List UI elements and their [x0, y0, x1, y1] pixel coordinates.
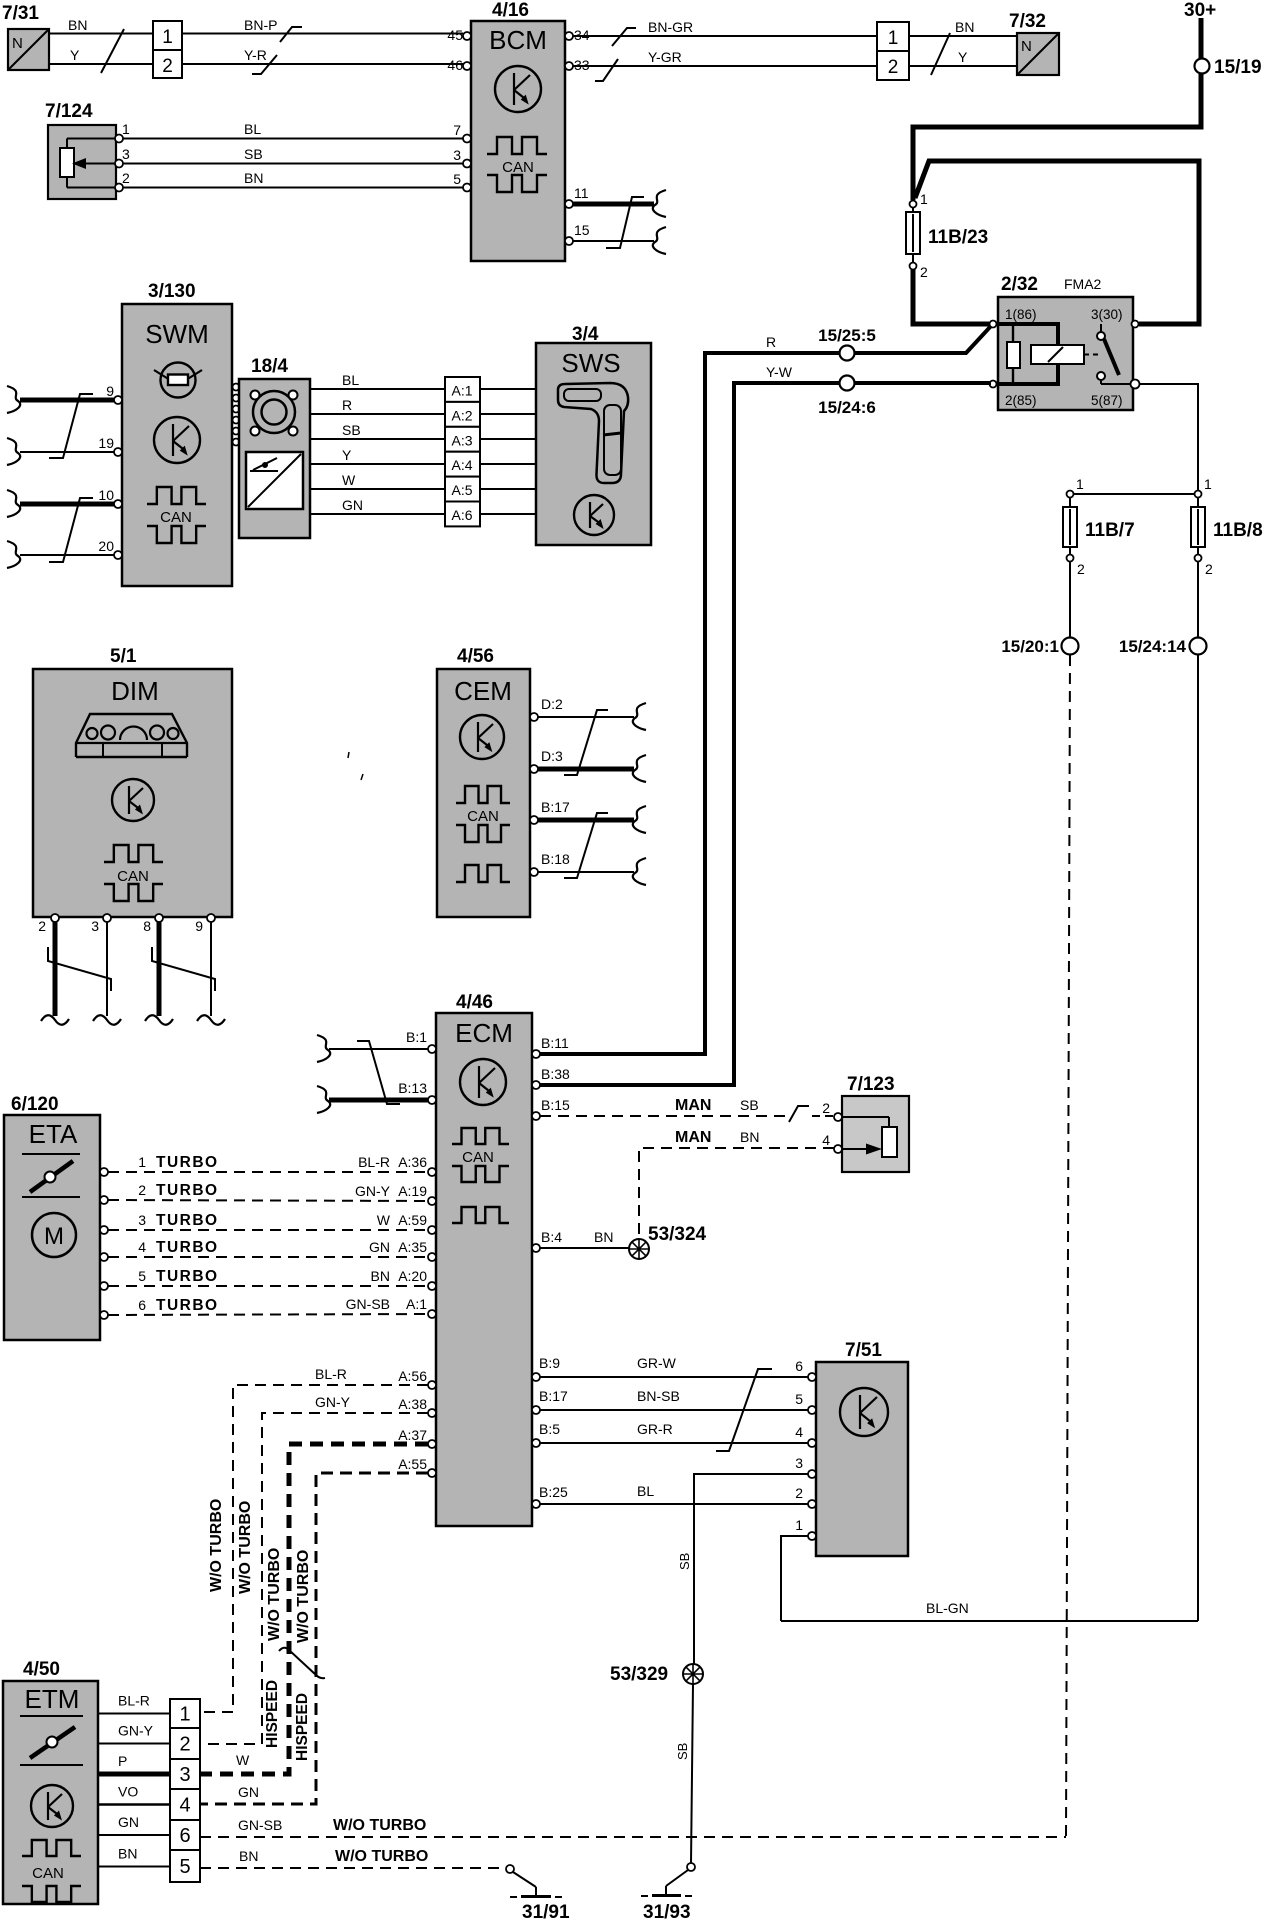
- svg-text:SB: SB: [677, 1553, 692, 1570]
- connector 15/24:6: [840, 376, 855, 391]
- svg-text:N: N: [12, 35, 23, 52]
- SWM pin 20: [114, 551, 122, 559]
- module SWM 3/130: [122, 304, 232, 586]
- 7/123 pin 2: [834, 1113, 842, 1121]
- svg-text:5/1: 5/1: [110, 646, 137, 667]
- squiggle end SWM:9: [7, 386, 20, 413]
- wire W 18/4 to A:5: [310, 488, 445, 490]
- BCM pin 11: [565, 200, 573, 208]
- connector pin 2 (top right): [877, 51, 909, 80]
- wire GR-W ECM B:9 to 7/51:6: [532, 1373, 540, 1381]
- 18/4 sensor icon: [246, 452, 303, 509]
- relay coil resistor: [1012, 324, 1014, 342]
- svg-text:46: 46: [447, 57, 463, 73]
- SWM CAN symbol: [147, 487, 206, 504]
- svg-text:7: 7: [453, 122, 461, 138]
- module 7/51: [816, 1362, 908, 1556]
- CEM pin D:2: [530, 713, 538, 721]
- 7/51 pin 4: [808, 1439, 816, 1447]
- svg-text:GN: GN: [342, 497, 363, 513]
- wire MAN SB ECM B:15 to 7/123:2 (dashed): [540, 1115, 788, 1117]
- fuse 11B/8 pin 1: [1195, 491, 1202, 498]
- svg-text:B:5: B:5: [539, 1421, 560, 1437]
- svg-text:2: 2: [1205, 561, 1213, 577]
- connector pin 2 (top left): [153, 50, 182, 78]
- wire fuse 11B/23 to relay 1(86): [913, 269, 989, 324]
- wire TURBO GN-SB ETA:6 to ECM A:1 (dashed): [108, 1314, 428, 1315]
- ECM pin B:38: [532, 1081, 540, 1089]
- wire BN-SB ECM B:17 to 7/51:5: [532, 1406, 540, 1414]
- svg-text:TURBO: TURBO: [156, 1182, 219, 1199]
- svg-text:45: 45: [447, 27, 463, 43]
- wire TURBO W ETA:3 to ECM A:59 (dashed): [108, 1229, 428, 1231]
- wire CEM D:3 (thick) to harness: [538, 767, 634, 772]
- svg-text:CAN: CAN: [502, 159, 534, 176]
- wire A:6 to SWS: [480, 513, 536, 515]
- cable marker CEM B:17/B:18: [564, 813, 608, 878]
- svg-text:2: 2: [162, 56, 173, 77]
- svg-text:TURBO: TURBO: [156, 1297, 219, 1314]
- svg-text:A:4: A:4: [451, 457, 472, 473]
- svg-text:Y: Y: [342, 447, 352, 463]
- svg-text:W/O TURBO: W/O TURBO: [335, 1848, 428, 1865]
- wire DIM:8 (thick) down: [157, 922, 162, 1016]
- 18/4 ring icon: [253, 391, 295, 433]
- svg-text:B:1: B:1: [406, 1029, 427, 1045]
- fuse 11B/7: [1069, 497, 1071, 556]
- svg-text:1: 1: [795, 1517, 803, 1533]
- cable marker SWM 10/20: [49, 498, 93, 562]
- SWS stalk icon: [558, 383, 628, 483]
- ETM CAN symbol: [22, 1840, 81, 1856]
- wire SB 7/124:3 to BCM:3: [123, 163, 463, 165]
- svg-text:A:56: A:56: [398, 1368, 427, 1384]
- svg-text:SB: SB: [675, 1743, 690, 1760]
- fuse 11B/8: [1197, 497, 1199, 556]
- CEM extra wave symbol: [456, 865, 510, 882]
- svg-text:R: R: [342, 397, 352, 413]
- svg-text:2(85): 2(85): [1005, 393, 1037, 408]
- ETA pin 6: [100, 1311, 108, 1319]
- squiggle end SWM:10: [7, 490, 20, 517]
- wire 30+ down to 15/19: [1199, 18, 1204, 127]
- svg-text:7/51: 7/51: [845, 1340, 882, 1361]
- svg-text:W/O TURBO: W/O TURBO: [295, 1550, 312, 1643]
- wire A:5 to SWS: [480, 488, 536, 490]
- DIM CAN symbol: [104, 845, 163, 862]
- relay coil-switch link (dashed): [1084, 354, 1102, 356]
- DIM pin 3: [103, 914, 111, 922]
- ETA pin 4: [100, 1253, 108, 1261]
- wire 15/20:1 down (dashed, W/O TURBO feed): [1066, 655, 1070, 1837]
- module ECM 4/46: [436, 1013, 532, 1526]
- squiggle end SWM:19: [7, 438, 20, 465]
- ETA pin 2: [100, 1196, 108, 1204]
- wire TURBO GN ETA:4 to ECM A:35 (dashed): [108, 1256, 428, 1258]
- squiggle end DIM:8: [145, 1015, 173, 1025]
- wire Y-R connector to BCM pin 46: [182, 63, 463, 65]
- svg-text:3: 3: [795, 1455, 803, 1471]
- connector A:2: [445, 402, 480, 427]
- svg-text:CAN: CAN: [462, 1149, 494, 1166]
- wire Y-W ECM B:38 to relay 2(85): [540, 383, 991, 1085]
- squiggle end BCM:11: [653, 190, 666, 217]
- svg-text:BN: BN: [955, 19, 974, 35]
- wire R 18/4 to A:2: [310, 413, 445, 415]
- module SWS 3/4: [536, 343, 651, 545]
- ETA motor symbol: [32, 1213, 76, 1257]
- wire BCM:15 to harness: [573, 240, 654, 242]
- 7/51 pin 2: [808, 1500, 816, 1508]
- svg-text:19: 19: [98, 435, 114, 451]
- svg-text:M: M: [44, 1223, 64, 1250]
- 7/124 wiper arrow pin 3: [86, 163, 119, 165]
- BCM pin 15: [565, 237, 573, 245]
- svg-text:D:2: D:2: [541, 696, 563, 712]
- wire ECM B:1 to harness: [329, 1048, 428, 1050]
- ECM pin B:4: [532, 1244, 540, 1252]
- 7/51 pin 1: [808, 1532, 816, 1540]
- wire Y connector to 7/32: [909, 65, 1017, 67]
- relay pin 3(30): [1132, 321, 1139, 328]
- svg-text:MAN: MAN: [675, 1097, 711, 1114]
- 7/123 pin 4: [834, 1145, 842, 1153]
- svg-text:BN-GR: BN-GR: [648, 19, 693, 35]
- svg-text:ETM: ETM: [25, 1684, 80, 1714]
- wire relay 5(87) to fuses 11B/7 11B/8: [1139, 384, 1198, 490]
- svg-text:30+: 30+: [1184, 0, 1216, 21]
- wire R ECM B:11 to relay 1(86): [540, 326, 991, 1054]
- BCM pin 3: [463, 160, 471, 168]
- svg-text:2: 2: [138, 1182, 146, 1198]
- svg-text:TURBO: TURBO: [156, 1154, 219, 1171]
- svg-text:GN: GN: [369, 1239, 390, 1255]
- wire SWM:20 to harness: [20, 554, 114, 556]
- wire SWM:10 (thick) to harness: [20, 502, 114, 507]
- svg-text:A:35: A:35: [398, 1239, 427, 1255]
- svg-text:TURBO: TURBO: [156, 1268, 219, 1285]
- BCM pin 46: [463, 62, 471, 70]
- component 7/124 (sensor with resistor): [48, 125, 116, 199]
- svg-text:15/24:6: 15/24:6: [818, 398, 876, 417]
- ETM connector pin 3: [170, 1759, 200, 1789]
- svg-text:20: 20: [98, 538, 114, 554]
- svg-text:A:37: A:37: [398, 1427, 427, 1443]
- svg-text:11: 11: [574, 185, 589, 201]
- DIM instrument cluster icon: [76, 714, 187, 757]
- connector A:1: [445, 377, 480, 402]
- svg-text:SB: SB: [244, 146, 263, 162]
- wire GN 18/4 to A:6: [310, 513, 445, 515]
- SWM pin 19: [114, 448, 122, 456]
- cable marker MAN SB: [789, 1106, 809, 1122]
- wire GN ETM to connector 6: [98, 1834, 170, 1836]
- svg-text:A:38: A:38: [398, 1396, 427, 1412]
- svg-text:GN: GN: [118, 1814, 139, 1830]
- component 18/4 (clock spring): [239, 379, 310, 538]
- svg-text:11B/23: 11B/23: [928, 227, 988, 248]
- ECM pin A:56: [428, 1381, 436, 1389]
- 7/124 pin 1: [115, 135, 123, 143]
- module ETM 4/50: [3, 1681, 98, 1904]
- svg-text:BL-R: BL-R: [315, 1366, 347, 1382]
- squiggle end B:13: [317, 1086, 330, 1113]
- module DIM 5/1: [33, 669, 232, 917]
- wire BL 18/4 to A:1: [310, 388, 445, 390]
- ETA pin 1: [100, 1168, 108, 1176]
- DIM pin 9: [207, 914, 215, 922]
- svg-text:1: 1: [162, 27, 173, 48]
- wire SB 18/4 to A:3: [310, 438, 445, 440]
- module CEM 4/56: [437, 669, 530, 917]
- ECM pin B:13: [428, 1096, 436, 1104]
- svg-text:15: 15: [574, 222, 590, 238]
- wire BCM:11 (thick) to harness: [573, 202, 654, 207]
- svg-text:W: W: [377, 1212, 391, 1228]
- svg-text:SWM: SWM: [145, 319, 209, 349]
- svg-text:3: 3: [138, 1212, 146, 1228]
- ECM circle-K symbol: [460, 1059, 506, 1105]
- svg-text:VO: VO: [118, 1784, 138, 1800]
- svg-text:11B/8: 11B/8: [1213, 520, 1263, 541]
- relay switch contact upper: [1100, 324, 1102, 332]
- svg-text:CAN: CAN: [467, 808, 499, 825]
- svg-text:A:2: A:2: [451, 407, 472, 423]
- wire DIM:2 (thick) down: [53, 922, 58, 1016]
- wire Y 7/31 to connector pin 2: [49, 63, 153, 65]
- cable marker BN-P: [280, 27, 302, 42]
- wire Y-GR BCM:33 to connector: [573, 65, 877, 67]
- svg-text:4/16: 4/16: [492, 0, 529, 21]
- svg-text:7/123: 7/123: [847, 1074, 895, 1095]
- svg-text:5: 5: [179, 1856, 190, 1878]
- ECM CAN symbol: [452, 1128, 509, 1144]
- cable marker CEM D:2/D:3: [564, 710, 608, 775]
- svg-text:A:55: A:55: [398, 1456, 427, 1472]
- ECM pin A:35: [428, 1253, 436, 1261]
- wire 30+ from 15/19 to fuse 11B/23: [913, 66, 1201, 200]
- svg-text:A:20: A:20: [398, 1268, 427, 1284]
- ECM pin A:37: [428, 1440, 436, 1448]
- svg-text:4: 4: [179, 1795, 190, 1817]
- svg-text:Y: Y: [70, 47, 80, 63]
- cable marker Y-GR: [595, 59, 618, 81]
- cable marker SWM 9/19: [49, 394, 93, 458]
- relay switch contact lower: [1097, 372, 1105, 380]
- 7/124 pin 3: [115, 160, 123, 168]
- wire GN-Y ETM to connector 2: [98, 1743, 170, 1745]
- DIM circle-K symbol: [112, 779, 154, 821]
- squiggle end BCM:15: [653, 227, 666, 254]
- ECM pin A:1: [428, 1310, 436, 1318]
- svg-text:5: 5: [453, 171, 461, 187]
- wire TURBO BN ETA:5 to ECM A:20 (dashed): [108, 1285, 428, 1287]
- svg-text:A:6: A:6: [451, 507, 472, 523]
- ECM pin A:19: [428, 1197, 436, 1205]
- BCM pin 34: [565, 32, 573, 40]
- splice 53/324: [629, 1239, 649, 1259]
- svg-text:GR-R: GR-R: [637, 1421, 673, 1437]
- ETM connector pin 1: [170, 1699, 200, 1728]
- relay pin 2(85): [990, 381, 997, 388]
- wire A:3 to SWS: [480, 438, 536, 440]
- wire CEM B:17 (thick) to harness: [538, 818, 634, 823]
- 7/51 circle-K symbol: [840, 1388, 888, 1436]
- svg-text:1: 1: [122, 121, 130, 137]
- squiggle end B:18: [633, 858, 646, 885]
- svg-text:CAN: CAN: [117, 868, 149, 885]
- svg-text:DIM: DIM: [111, 676, 159, 706]
- cable marker ECM B:1/B:13: [357, 1041, 400, 1104]
- svg-text:ECM: ECM: [455, 1018, 513, 1048]
- svg-text:B:9: B:9: [539, 1355, 560, 1371]
- connector A:4: [445, 452, 480, 477]
- svg-text:BL: BL: [244, 121, 261, 137]
- ECM pin A:55: [428, 1469, 436, 1477]
- ground 31/91: [506, 1865, 514, 1873]
- svg-text:GN-SB: GN-SB: [346, 1296, 390, 1312]
- wire TURBO BL-R ETA:1 to ECM A:36 (dashed): [108, 1171, 428, 1173]
- squiggle end D:2: [633, 703, 646, 730]
- svg-text:18/4: 18/4: [251, 356, 288, 377]
- svg-text:Y-W: Y-W: [766, 364, 793, 380]
- wire DIM:9 down: [210, 922, 212, 1016]
- wire BL-R ETM to connector 1: [98, 1713, 170, 1715]
- 7/51 pin 3: [808, 1470, 816, 1478]
- svg-text:5: 5: [138, 1268, 146, 1284]
- ECM pin A:59: [428, 1226, 436, 1234]
- svg-text:1(86): 1(86): [1005, 307, 1037, 322]
- svg-text:FMA2: FMA2: [1064, 276, 1102, 292]
- BCM circle-K symbol: [495, 66, 541, 112]
- svg-text:B:15: B:15: [541, 1097, 570, 1113]
- cable marker slash BN/Y right: [931, 33, 950, 75]
- wire TURBO GN-Y ETA:2 to ECM A:19 (dashed): [108, 1200, 428, 1201]
- wire ECM B:13 (thick) to harness: [329, 1098, 428, 1103]
- wire link fuse tops: [1070, 493, 1198, 495]
- component 7/32 (N box): [1017, 33, 1059, 75]
- wire MAN BN 7/123:4 to splice 53/324 (dashed): [639, 1148, 834, 1240]
- svg-text:53/324: 53/324: [648, 1224, 707, 1245]
- CEM pin B:18: [530, 868, 538, 876]
- svg-text:9: 9: [195, 918, 203, 934]
- svg-text:1: 1: [1204, 476, 1212, 492]
- svg-text:Y-R: Y-R: [244, 47, 267, 63]
- connector 15/25:5: [840, 346, 855, 361]
- ECM pin B:15: [532, 1112, 540, 1120]
- fuse 11B/7 pin 1: [1067, 491, 1074, 498]
- svg-text:A:19: A:19: [398, 1183, 427, 1199]
- 7/51 pin 6: [808, 1373, 816, 1381]
- connector 15/20:1: [1062, 638, 1079, 655]
- svg-text:1: 1: [920, 191, 928, 207]
- ETA pin 5: [100, 1282, 108, 1290]
- connector 15/24:14: [1190, 638, 1207, 655]
- wire BN ETM to connector 5: [98, 1866, 170, 1868]
- wire 15/24:14 down to BL-GN: [1197, 655, 1199, 1621]
- svg-text:2: 2: [122, 170, 130, 186]
- svg-text:A:3: A:3: [451, 432, 472, 448]
- component 7/123 (sensor): [842, 1096, 909, 1172]
- cable marker 7/51 wires: [716, 1369, 772, 1451]
- BCM pin 45: [463, 32, 471, 40]
- relay switch arm: [1104, 339, 1119, 375]
- CEM pin B:17: [530, 816, 538, 824]
- SWM-18/4 pin column: [233, 384, 240, 391]
- svg-text:2: 2: [38, 918, 46, 934]
- svg-text:GN-Y: GN-Y: [315, 1394, 351, 1410]
- svg-text:A:1: A:1: [451, 383, 472, 399]
- SWS circle-K symbol: [574, 495, 614, 535]
- svg-text:CAN: CAN: [160, 509, 192, 526]
- ECM pin B:11: [532, 1050, 540, 1058]
- svg-text:HISPEED: HISPEED: [264, 1680, 281, 1748]
- CEM pin D:3: [530, 765, 538, 773]
- ETM connector pin 5: [170, 1850, 200, 1882]
- connector A:6: [445, 502, 480, 527]
- relay pin 5(87): [1131, 380, 1140, 389]
- module BCM 4/16: [471, 21, 565, 261]
- fuse 11B/23 pin 1: [910, 201, 917, 208]
- svg-text:ETA: ETA: [29, 1119, 78, 1149]
- ETM circle-K symbol: [31, 1785, 73, 1827]
- svg-text:B:11: B:11: [541, 1035, 569, 1051]
- svg-text:9: 9: [106, 383, 114, 399]
- svg-text:2: 2: [179, 1734, 190, 1756]
- relay coil circuit: [995, 324, 1058, 345]
- svg-text:6: 6: [179, 1825, 190, 1847]
- speck 1: [348, 752, 349, 758]
- svg-text:Y-GR: Y-GR: [648, 49, 682, 65]
- svg-text:B:38: B:38: [541, 1066, 570, 1082]
- svg-text:8: 8: [143, 918, 151, 934]
- speck 2: [361, 774, 363, 780]
- svg-text:2: 2: [822, 1100, 830, 1116]
- wire BN 7/124:2 to BCM:5: [123, 187, 463, 189]
- cable marker BN-GR: [612, 28, 636, 46]
- svg-text:3/130: 3/130: [148, 281, 196, 302]
- wire VO ETM to connector 4: [98, 1803, 170, 1806]
- svg-text:BL: BL: [342, 372, 359, 388]
- svg-text:53/329: 53/329: [610, 1664, 668, 1685]
- svg-text:5(87): 5(87): [1091, 393, 1123, 408]
- svg-text:BCM: BCM: [489, 25, 547, 55]
- variant marker slash lines 3/4: [279, 1648, 325, 1678]
- svg-text:W/O TURBO: W/O TURBO: [333, 1817, 426, 1834]
- wire BN ETM:5 (dashed) to ground 31/91 W/O TURBO: [200, 1867, 506, 1869]
- wire GN ECM A:55 (dashed) down to ETM:4: [201, 1473, 428, 1804]
- svg-text:15/24:14: 15/24:14: [1119, 637, 1187, 656]
- svg-text:B:17: B:17: [541, 799, 570, 815]
- wire BL ECM B:25 to 7/51:2: [532, 1500, 540, 1508]
- svg-text:1: 1: [1076, 476, 1084, 492]
- svg-text:6/120: 6/120: [11, 1094, 59, 1115]
- svg-text:BN-P: BN-P: [244, 17, 277, 33]
- svg-text:6: 6: [795, 1358, 803, 1374]
- svg-text:31/93: 31/93: [643, 1902, 691, 1920]
- wire 11B/7 to 15/20:1: [1069, 561, 1071, 638]
- svg-text:A:36: A:36: [398, 1154, 427, 1170]
- wire GR-R ECM B:5 to 7/51:4: [532, 1439, 540, 1447]
- wire CEM B:18 to harness: [538, 871, 634, 873]
- squiggle end B:17: [633, 806, 646, 833]
- svg-text:3(30): 3(30): [1091, 307, 1123, 322]
- svg-text:N: N: [1021, 38, 1032, 55]
- wire 11B/8 to 15/24:14: [1197, 561, 1199, 638]
- svg-text:3: 3: [453, 147, 461, 163]
- svg-text:W: W: [236, 1752, 250, 1768]
- svg-text:A:59: A:59: [398, 1212, 427, 1228]
